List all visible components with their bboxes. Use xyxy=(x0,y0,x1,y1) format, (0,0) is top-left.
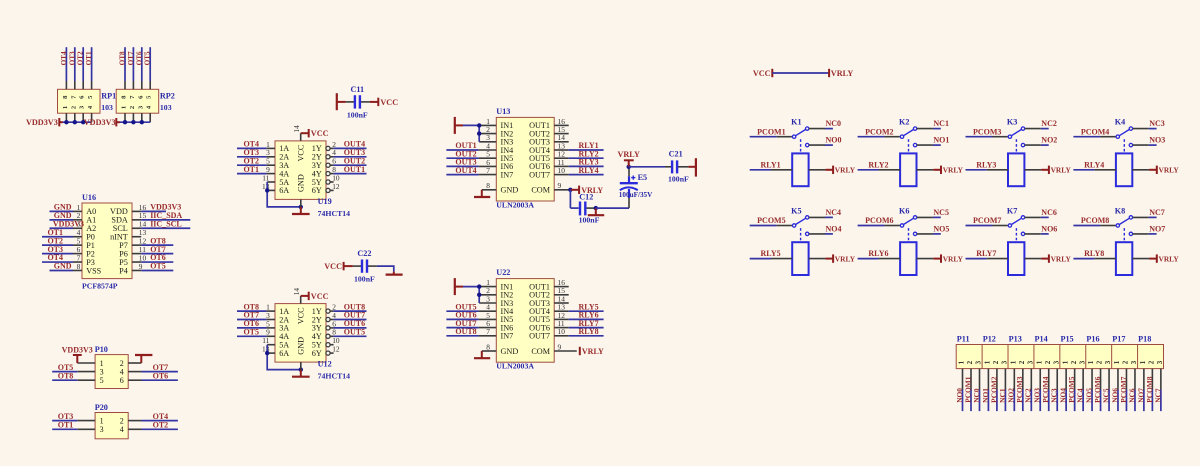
P20 pin 3 number xyxy=(100,425,104,434)
P14 pin 1 lead xyxy=(1039,369,1041,390)
svg-text:RLY4: RLY4 xyxy=(1084,160,1104,169)
wire PCOM6 to K6 common xyxy=(858,225,900,227)
net label OT2 (U19 input) xyxy=(243,156,259,165)
net label OT5 (U12 input) xyxy=(243,328,259,337)
U13 pin 3 number xyxy=(486,133,490,142)
U22 pin 5 number xyxy=(486,311,490,320)
U22 pin 2 number xyxy=(486,286,490,295)
U12 pin 4 number xyxy=(332,311,336,320)
wire OT5 to P10 xyxy=(52,371,77,373)
C12 value 100nF xyxy=(579,216,600,225)
U12 pin 1 lead xyxy=(266,310,275,312)
net label OT5 (U16 pin 9) xyxy=(150,262,166,271)
U13 pin name OUT3 xyxy=(529,138,550,147)
wire OT8 from U16 pin 12 xyxy=(141,244,173,246)
svg-text:OT8: OT8 xyxy=(58,371,74,380)
U13 pin 16 number xyxy=(558,117,566,126)
RP2 pin 3 lead xyxy=(141,113,143,122)
P10 pin 2 lead xyxy=(128,362,141,364)
wire PCOM7 from P17 pin 2 xyxy=(1125,390,1127,412)
U19 pin 1 number xyxy=(266,140,270,149)
net label PCOM4 xyxy=(1081,127,1109,136)
relay K6 switch lever xyxy=(904,218,914,224)
net label OT2 (U16 pin 5) xyxy=(47,236,63,245)
svg-text:RLY8: RLY8 xyxy=(579,327,599,336)
svg-text:C22: C22 xyxy=(357,249,371,258)
P11 pin 1 lead xyxy=(962,369,964,390)
U16 pin 5 lead xyxy=(73,244,82,246)
net label OT1 (U19 input) xyxy=(243,165,259,174)
U13 pin 12 number xyxy=(558,150,566,159)
P14 pin 2 number xyxy=(1044,360,1052,364)
wire RLY2 from U13 pin 12 xyxy=(569,157,604,159)
connector P15 designator xyxy=(1060,335,1073,344)
RP1 pin 3 lead xyxy=(82,113,84,122)
U16 pin 2 number xyxy=(77,211,81,220)
svg-text:2: 2 xyxy=(1070,360,1078,364)
wire OUT7 to U22 pin 6 xyxy=(446,327,478,329)
svg-text:2: 2 xyxy=(1148,360,1156,364)
net label OT3 xyxy=(68,51,76,65)
wire RLY3 to K3 coil xyxy=(966,169,1009,171)
svg-text:9: 9 xyxy=(558,342,562,351)
net label OT5 xyxy=(144,51,152,65)
P10 pin lead OT6 xyxy=(128,379,141,381)
svg-text:ULN2003A: ULN2003A xyxy=(496,200,534,209)
connector P14 divider xyxy=(1033,345,1035,369)
U13 pin 5 number xyxy=(486,150,490,159)
hex inverter U19 body xyxy=(275,141,326,200)
net label OUT5 (U12 output) xyxy=(344,328,365,337)
net label OT1 xyxy=(85,51,93,65)
relay K7 coil xyxy=(1008,242,1024,275)
U13 pin 10 lead xyxy=(554,174,569,176)
power port VDD3V3 (RP2) xyxy=(84,118,120,127)
U22 pin name OUT1 xyxy=(529,282,550,291)
svg-text:1: 1 xyxy=(1139,360,1147,364)
U19 pin 5 lead xyxy=(266,164,275,166)
P11 pin 1 number xyxy=(958,360,966,364)
wire OT5 to U12 pin 9 xyxy=(237,335,266,337)
P20 pin 1 number xyxy=(100,416,104,425)
svg-text:OT2: OT2 xyxy=(153,421,169,430)
net label OT4 (U16 pin 7) xyxy=(47,253,63,262)
net label NC7 xyxy=(1149,208,1165,217)
svg-text:1: 1 xyxy=(984,360,992,364)
relay K3 common contact xyxy=(1008,135,1011,138)
junction U12 ground node xyxy=(299,367,303,371)
P11 pin 2 lead xyxy=(970,369,972,390)
net label OT3 (U16 pin 6) xyxy=(47,245,63,254)
svg-text:14: 14 xyxy=(292,125,301,133)
power port VDD3V3 (RP1) xyxy=(26,118,63,127)
wire NO3 from P14 pin 1 xyxy=(1039,390,1041,412)
tie bar port (U22 unused inputs) xyxy=(455,278,463,295)
svg-text:VRLY: VRLY xyxy=(831,69,854,78)
U19 pin name 4Y xyxy=(312,169,322,178)
U16 pin 16 number xyxy=(139,203,147,212)
U13 pin name GND xyxy=(501,186,519,195)
P20 pin lead OT3 xyxy=(77,420,95,422)
svg-text:3: 3 xyxy=(1001,360,1009,364)
U19 pin 4 number xyxy=(332,148,336,157)
U22 pin 14 lead xyxy=(554,302,569,304)
junction U22 pin 2 xyxy=(477,293,481,297)
wire VDD3V3 bus under RP1 xyxy=(63,121,92,123)
svg-text:P14: P14 xyxy=(1035,335,1048,344)
U19 pin name 6Y xyxy=(312,186,322,195)
net label PCOM3 xyxy=(973,127,1001,136)
ground bar (P10 pin 2) xyxy=(135,355,152,363)
U13 pin 9 number xyxy=(558,181,562,190)
wire NC5 from P16 pin 3 xyxy=(1108,390,1110,412)
svg-text:NC1: NC1 xyxy=(998,388,1007,403)
P11 pin 3 lead xyxy=(979,369,981,390)
U22 pin name COM xyxy=(531,347,550,356)
svg-text:OT5: OT5 xyxy=(150,262,166,271)
svg-text:1: 1 xyxy=(1035,360,1043,364)
svg-text:NC4: NC4 xyxy=(826,208,842,217)
svg-text:P12: P12 xyxy=(983,335,996,344)
svg-text:103: 103 xyxy=(160,103,172,112)
svg-text:OT8: OT8 xyxy=(119,51,127,65)
U16 part value PCF8574P xyxy=(82,282,118,291)
U22 pin name IN2 xyxy=(501,291,514,300)
ground symbol (C22) xyxy=(386,272,403,275)
U13 pin name IN3 xyxy=(501,138,514,147)
svg-text:ULN2003A: ULN2003A xyxy=(496,362,534,371)
svg-text:NC7: NC7 xyxy=(1149,208,1165,217)
U13 pin name IN7 xyxy=(501,170,514,179)
svg-text:VCC: VCC xyxy=(311,292,329,301)
U22 pin 2 lead xyxy=(479,294,496,296)
U13 pin name IN2 xyxy=(501,129,514,138)
net label NC0 xyxy=(826,119,842,128)
wire NC6 from P17 pin 3 xyxy=(1134,390,1136,412)
wire OT8 to P10 xyxy=(52,379,77,381)
U13 pin name OUT2 xyxy=(529,129,550,138)
net label OUT7 (U12 output) xyxy=(344,311,365,320)
svg-text:C21: C21 xyxy=(669,149,683,158)
U12 output bubble pin 2 xyxy=(326,309,330,313)
U16 pin name nINT xyxy=(110,233,128,242)
U19 pin 3 number xyxy=(266,148,270,157)
U13 pin name COM xyxy=(531,186,550,195)
P17 pin 2 number xyxy=(1122,360,1130,364)
wire OT5 to RP2 pin 5 xyxy=(149,47,151,89)
svg-text:PCOM6: PCOM6 xyxy=(865,216,893,225)
net label PCOM5 (P15) xyxy=(1067,376,1076,403)
svg-text:OT7: OT7 xyxy=(127,51,135,65)
wire RLY2 to K2 coil xyxy=(858,169,901,171)
U16 pin 7 number xyxy=(77,253,81,262)
U13 pin 1 lead xyxy=(479,124,496,126)
RP1 pin 5 number xyxy=(87,95,94,99)
U12 pin 5 lead xyxy=(266,327,275,329)
wire OUT8 from U12 pin 2 xyxy=(334,310,367,312)
wire IIC_SDA from U16 pin 15 xyxy=(141,219,190,221)
U19 pin 11 lead xyxy=(267,181,275,183)
svg-text:9: 9 xyxy=(558,181,562,190)
power port VRLY (K2 coil) xyxy=(917,166,964,175)
U12 pin 3 number xyxy=(266,311,270,320)
U13 pin name OUT1 xyxy=(529,121,550,130)
svg-text:OT6: OT6 xyxy=(135,51,143,65)
net label OT8 (U12 input) xyxy=(243,302,259,311)
power port VCC (U19 pin 14) xyxy=(301,129,329,138)
P18 pin 1 lead xyxy=(1143,369,1145,390)
U19 output bubble pin 8 xyxy=(326,172,330,176)
U19 pin 9 number xyxy=(266,165,270,174)
net label OT2 xyxy=(77,51,85,65)
U13 pin 13 number xyxy=(558,141,566,150)
wire NC7 from K8 xyxy=(1133,216,1157,218)
relay K5 common contact xyxy=(792,224,795,227)
U12 pin 11 number xyxy=(262,336,269,345)
U19 pin name 3Y xyxy=(312,161,322,170)
svg-text:VRLY: VRLY xyxy=(943,166,964,175)
relay K1 actuator link xyxy=(800,139,802,153)
U16 pin name P2 xyxy=(86,249,95,258)
net label NO0 xyxy=(826,136,842,145)
P11 pin 2 number xyxy=(966,360,974,364)
U19 designator xyxy=(318,197,332,206)
wire PCOM2 from P12 pin 2 xyxy=(996,390,998,412)
wire PCOM4 to K4 common xyxy=(1073,136,1115,138)
P14 pin 2 lead xyxy=(1048,369,1050,390)
relay K8 common contact xyxy=(1116,224,1119,227)
svg-text:VRLY: VRLY xyxy=(943,254,964,263)
P17 pin 1 number xyxy=(1113,360,1121,364)
net label GND (U16 pin 1) xyxy=(54,203,72,212)
wire RLY4 from U13 pin 10 xyxy=(569,174,604,176)
U22 pin 1 lead xyxy=(479,286,496,288)
svg-text:RLY3: RLY3 xyxy=(976,160,996,169)
wire NO0 from K1 xyxy=(809,144,833,146)
svg-text:PCOM3: PCOM3 xyxy=(973,127,1001,136)
power port VCC (C22 left) xyxy=(324,262,353,271)
net label PCOM3 (P13) xyxy=(1015,376,1024,403)
svg-text:OT3: OT3 xyxy=(58,412,74,421)
svg-text:7: 7 xyxy=(486,327,490,336)
wire NC6 from K7 xyxy=(1025,216,1049,218)
P20 pin 2 number xyxy=(120,416,124,425)
svg-text:OT1: OT1 xyxy=(85,51,93,65)
connector P17 divider xyxy=(1111,345,1113,369)
svg-text:PCOM2: PCOM2 xyxy=(865,127,893,136)
U19 output bubble pin 4 xyxy=(326,155,330,159)
wire OUT6 from U12 pin 6 xyxy=(334,327,367,329)
svg-text:100nF: 100nF xyxy=(579,216,600,225)
P14 pin 1 number xyxy=(1035,360,1043,364)
U22 pin 11 number xyxy=(558,319,565,328)
svg-text:3: 3 xyxy=(1156,360,1164,364)
P18 pin 3 number xyxy=(1156,360,1164,364)
U13 pin 16 lead xyxy=(554,124,569,126)
RP2 pin 3 number xyxy=(137,105,144,109)
P11 pin 3 number xyxy=(975,360,983,364)
wire GND to U16 pin 1 xyxy=(50,210,74,212)
U12 pin 10 number xyxy=(332,336,340,345)
U19 pin 1 lead xyxy=(266,147,275,149)
svg-text:2: 2 xyxy=(120,416,124,425)
wire NC2 from K3 xyxy=(1025,128,1049,130)
svg-text:8: 8 xyxy=(486,181,490,190)
U22 pin 8 number xyxy=(486,342,490,351)
junction under RP1 at x=74.8 xyxy=(73,120,77,124)
darlington driver U22 body xyxy=(496,279,554,363)
wire OT3 to P20 xyxy=(52,420,77,422)
net label RLY5 xyxy=(579,302,599,311)
P10 pin 1 lead xyxy=(77,362,95,364)
wire VCC to VRLY tie xyxy=(772,72,829,74)
C12 designator xyxy=(579,192,593,201)
P18 pin 1 number xyxy=(1139,360,1147,364)
RP1 pin 1 lead xyxy=(65,113,67,122)
P18 pin 2 number xyxy=(1148,360,1156,364)
wire tie to U13 pins 1-3 xyxy=(463,125,479,141)
wire NC4 from P15 pin 3 xyxy=(1082,390,1084,412)
U19 pin 8 lead xyxy=(330,173,334,175)
connector P16 designator xyxy=(1086,335,1099,344)
wire OT6 to RP2 pin 6 xyxy=(141,47,143,89)
net label RLY8 xyxy=(1084,249,1104,258)
net label OT8 xyxy=(119,51,127,65)
U13 pin 11 lead xyxy=(554,165,569,167)
U12 pin 12 lead xyxy=(330,352,334,354)
wire NO2 from K3 xyxy=(1025,144,1049,146)
U13 pin 13 lead xyxy=(554,149,569,151)
net label RLY4 xyxy=(1084,160,1104,169)
net label OT6 (U12 input) xyxy=(243,319,259,328)
wire OT2 to RP1 pin 6 xyxy=(82,47,84,89)
P20 designator xyxy=(95,403,108,412)
svg-text:NC6: NC6 xyxy=(1041,208,1057,217)
U22 designator xyxy=(496,268,510,277)
net label RLY2 xyxy=(579,149,599,158)
RP1 pin 1 number xyxy=(62,106,69,109)
RP2 pin 6 number xyxy=(137,95,144,99)
wire PCOM1 to K1 common xyxy=(750,136,792,138)
wire OT7 to RP2 pin 7 xyxy=(132,47,134,89)
wire OT4 to U16 pin 7 xyxy=(42,261,73,263)
svg-text:NO0: NO0 xyxy=(826,136,842,145)
svg-text:C12: C12 xyxy=(579,192,593,201)
svg-text:5: 5 xyxy=(100,376,104,385)
net label OT7 xyxy=(127,51,135,65)
wire NO6 from K7 xyxy=(1025,233,1049,235)
U16 pin 10 lead xyxy=(132,261,141,263)
svg-text:GND: GND xyxy=(501,186,519,195)
net label PCOM2 (P12) xyxy=(989,376,998,403)
svg-text:NC2: NC2 xyxy=(1041,119,1057,128)
U12 part value 74HCT14 xyxy=(318,372,351,381)
P12 pin 1 lead xyxy=(987,369,989,390)
U22 pin 13 lead xyxy=(554,310,569,312)
net label OT3 (P20) xyxy=(58,412,74,421)
net label NO1 xyxy=(933,136,949,145)
U12 pin 6 number xyxy=(332,319,336,328)
U13 pin 6 number xyxy=(486,158,490,167)
U16 pin 14 number xyxy=(139,220,147,229)
P17 pin 1 lead xyxy=(1117,369,1119,390)
U12 pin name 1Y xyxy=(312,307,322,316)
ground symbol (C12) xyxy=(588,208,604,215)
relay K7 common contact xyxy=(1008,224,1011,227)
relay K6 actuator link xyxy=(908,228,910,242)
wire RLY3 from U13 pin 11 xyxy=(569,165,604,167)
relay K4 switch lever xyxy=(1119,129,1129,135)
svg-text:VCC: VCC xyxy=(311,129,329,138)
U12 pin 2 number xyxy=(332,303,336,312)
wire NO5 from K6 xyxy=(917,233,941,235)
junction VRLY node xyxy=(627,165,631,169)
C21 designator xyxy=(669,149,683,158)
U13 pin 2 lead xyxy=(479,133,496,135)
svg-text:NO2: NO2 xyxy=(1041,136,1057,145)
U16 pin 9 lead xyxy=(132,269,141,271)
U13 pin name IN6 xyxy=(501,162,514,171)
relay K1 coil xyxy=(792,153,808,186)
wire NC2 from P13 pin 3 xyxy=(1030,390,1032,412)
wire U19 unused inputs to ground xyxy=(267,182,301,207)
wire RLY7 from U22 pin 11 xyxy=(569,327,604,329)
relay K8 NC contact xyxy=(1129,216,1132,219)
RP2 pin 7 number xyxy=(129,95,136,99)
U22 pin 6 number xyxy=(486,319,490,328)
connector P20 body xyxy=(95,413,128,439)
svg-text:NC3: NC3 xyxy=(1050,388,1059,403)
U22 pin 9 number xyxy=(558,342,562,351)
io expander U16 body xyxy=(82,203,132,279)
RP2 pin 4 number xyxy=(146,105,153,109)
P10 pin lead OT5 xyxy=(77,371,95,373)
wire NC5 from K6 xyxy=(917,216,941,218)
U16 pin 15 number xyxy=(139,211,147,220)
C22 designator xyxy=(357,249,371,258)
net label OUT6 (U22 input) xyxy=(455,311,476,320)
svg-text:RLY4: RLY4 xyxy=(579,166,599,175)
U19 pin 14 lead xyxy=(300,133,302,141)
net label NC5 (P16) xyxy=(1101,388,1110,403)
U12 pin 8 lead xyxy=(330,335,334,337)
U13 pin 1 number xyxy=(486,117,490,126)
svg-text:14: 14 xyxy=(292,288,301,296)
U22 pin 15 lead xyxy=(554,294,569,296)
U19 internal label GND xyxy=(296,174,305,192)
U19 pin 9 lead xyxy=(266,173,275,175)
svg-text:VRLY: VRLY xyxy=(582,347,604,356)
svg-text:IIC_SCL: IIC_SCL xyxy=(150,219,182,228)
svg-text:NC0: NC0 xyxy=(972,388,981,403)
power port VRLY (K4 coil) xyxy=(1132,166,1179,175)
net label OT1 (P20) xyxy=(58,421,74,430)
relay K5 NO contact xyxy=(806,232,809,235)
svg-text:U13: U13 xyxy=(496,107,510,116)
svg-text:P20: P20 xyxy=(95,403,108,412)
U12 pin 9 lead xyxy=(266,335,275,337)
U12 pin name 2A xyxy=(279,315,289,324)
net label NO2 xyxy=(1041,136,1057,145)
RP1 pin 2 number xyxy=(70,105,77,109)
junction U12 pin 13 xyxy=(265,351,269,355)
wire NO1 from K2 xyxy=(917,144,941,146)
net label VDD3V3 (U16 pin 3) xyxy=(53,219,84,228)
ground symbol (U12) xyxy=(292,370,310,377)
wire NO5 from P16 pin 1 xyxy=(1091,390,1093,412)
U19 output bubble pin 6 xyxy=(326,163,330,167)
net label NC0 (P11) xyxy=(972,388,981,403)
